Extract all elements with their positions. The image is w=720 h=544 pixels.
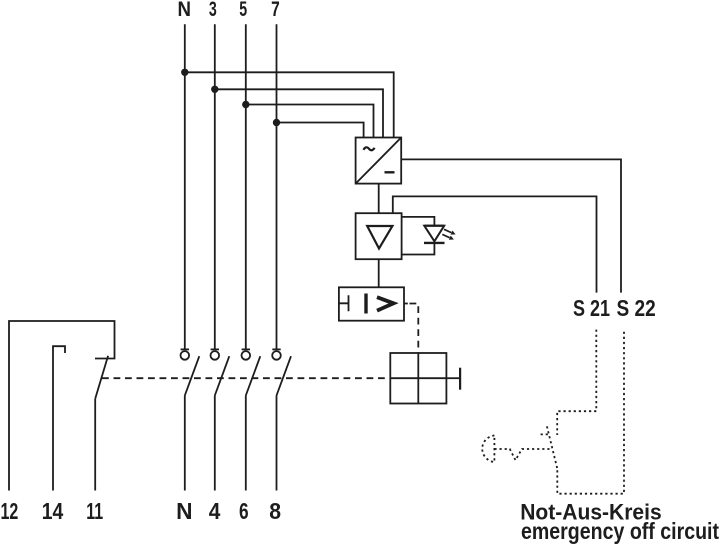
wire amplifier to overcurrent relay xyxy=(378,259,380,287)
wire rectifier output to S22 column xyxy=(401,159,621,292)
I> glyph I xyxy=(364,294,367,314)
LED cathode bar xyxy=(424,242,445,244)
wire from 7 junction to rectifier xyxy=(277,123,364,138)
wire from 3 junction to rectifier xyxy=(215,89,383,137)
svg-text:N: N xyxy=(176,498,192,524)
svg-text:6: 6 xyxy=(239,498,249,524)
main contact pole 3 (6) xyxy=(242,349,261,490)
svg-text:emergency off circuit: emergency off circuit xyxy=(521,518,719,544)
rectifier / power supply block U1 xyxy=(356,138,402,184)
auxiliary contact terminal 14 wire with hook xyxy=(53,346,65,490)
rectifier AC tilde symbol xyxy=(363,147,374,150)
svg-text:11: 11 xyxy=(86,498,103,524)
relay armature connector xyxy=(446,377,460,379)
LED emission arrow 2 xyxy=(442,234,454,239)
wire 5 vertical (pole 3 supply) xyxy=(245,24,247,349)
main contact pole 2 (4) xyxy=(211,349,230,490)
LED indicator box xyxy=(402,217,435,255)
overcurrent detector block I> xyxy=(339,287,404,320)
junction dot on 3 xyxy=(211,86,218,93)
junction dot on 5 xyxy=(242,101,249,108)
main contact pole 1 (N) xyxy=(181,349,200,490)
svg-text:S 21: S 21 xyxy=(573,295,610,321)
wire from N junction to rectifier xyxy=(185,72,394,137)
svg-text:3: 3 xyxy=(209,0,217,21)
dotted emergency stop contact blade xyxy=(547,426,558,470)
junction dot on N xyxy=(181,69,188,76)
amplifier triangle symbol xyxy=(367,226,392,249)
rectifier DC minus symbol xyxy=(385,171,395,173)
svg-text:S 22: S 22 xyxy=(617,295,656,321)
main contact pole 4 (8) xyxy=(272,349,291,490)
LED triangle xyxy=(424,226,444,242)
wire 3 vertical (pole 2 supply) xyxy=(214,24,216,349)
dotted emergency-off loop bottom and S22 side xyxy=(557,330,624,494)
rectifier diagonal xyxy=(356,138,402,184)
svg-text:N: N xyxy=(178,0,192,21)
svg-text:14: 14 xyxy=(42,498,64,524)
LED anode bar xyxy=(424,225,444,227)
wire S21 column to amplifier xyxy=(393,196,597,292)
dotted mushroom head actuator xyxy=(482,436,494,463)
dotted emergency-off loop S21 side xyxy=(557,330,596,435)
dashed mechanical linkage line xyxy=(102,377,390,379)
dotted actuator link with spring xyxy=(494,449,551,460)
amplifier block U2 xyxy=(356,213,402,259)
dashed actuation link I> to relay coil xyxy=(404,303,408,305)
svg-text:8: 8 xyxy=(269,498,281,524)
wire 7 vertical (pole 4 supply) xyxy=(276,24,278,349)
relay coil K1 (square with cross) xyxy=(390,353,446,404)
LED emission arrow 1 xyxy=(444,229,456,234)
auxiliary contact terminal 11 wire xyxy=(94,399,96,491)
auxiliary contact blade 11-12 xyxy=(95,356,108,399)
wire N vertical (pole 1 supply) xyxy=(184,24,186,349)
I> glyph greater-than xyxy=(377,297,394,310)
svg-text:5: 5 xyxy=(239,0,247,21)
auxiliary contact terminal 12 wire with seat xyxy=(9,321,115,491)
svg-text:7: 7 xyxy=(271,0,280,21)
dotted forced-opening tick xyxy=(541,433,550,435)
relay armature bar xyxy=(459,368,461,390)
relay coil cross horizontal xyxy=(390,377,446,379)
svg-text:12: 12 xyxy=(1,498,19,524)
wire from 5 junction to rectifier xyxy=(246,105,374,138)
svg-text:4: 4 xyxy=(209,498,221,524)
relay coil cross vertical xyxy=(417,353,419,404)
junction dot on 7 xyxy=(273,119,280,126)
detector input stub and bar xyxy=(339,295,349,311)
wire rectifier bottom to amplifier xyxy=(378,184,380,214)
